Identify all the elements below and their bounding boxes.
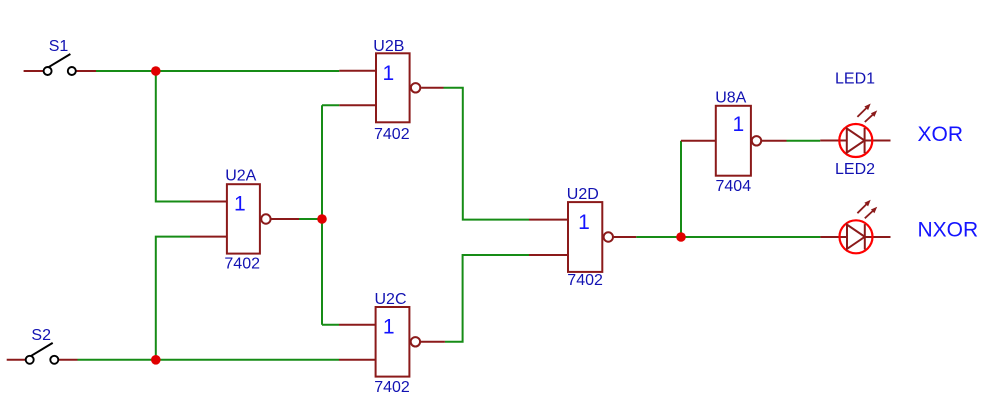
wire vertical bus x=322 from U2B input B to U2C input A <box>321 105 323 325</box>
junction dot at U2A output net <box>317 214 327 224</box>
wire junction up to U8A input <box>680 141 682 237</box>
inverter U8A body <box>716 106 761 176</box>
svg-text:7402: 7402 <box>567 272 603 289</box>
pin stub U2D input B <box>529 254 568 256</box>
pin stub U2D input A <box>529 219 568 221</box>
NOR gate U2C body <box>376 307 420 377</box>
svg-text:7402: 7402 <box>224 256 260 273</box>
NOR gate U2D body <box>568 202 613 272</box>
pin stub U2C input A <box>339 324 376 326</box>
svg-text:LED1: LED1 <box>835 71 875 88</box>
svg-text:S2: S2 <box>31 327 51 344</box>
junction dot at S2 net <box>151 355 161 365</box>
svg-text:U2B: U2B <box>373 38 404 55</box>
LED LED2 <box>820 200 890 254</box>
junction dot at S1 net <box>151 66 161 76</box>
NOR gate U2B body <box>376 53 420 122</box>
wire S2 output to U2C input B (net at y=359.8) <box>78 359 340 361</box>
svg-text:1: 1 <box>383 316 395 339</box>
svg-text:LED2: LED2 <box>835 161 875 178</box>
pin stub U8A output <box>762 140 787 142</box>
pin stub U2C input B <box>339 359 376 361</box>
svg-text:S1: S1 <box>49 38 69 55</box>
switch S1 <box>24 54 96 75</box>
pin stub U2B input B <box>339 104 376 106</box>
pin stub U2B input A <box>339 70 376 72</box>
wire bus to U2C input A <box>322 324 339 326</box>
junction dot at U2D output net <box>676 232 686 242</box>
pin stub U2A input B <box>190 236 227 238</box>
svg-text:1: 1 <box>578 211 590 234</box>
svg-text:NXOR: NXOR <box>918 218 979 241</box>
svg-text:7402: 7402 <box>374 126 410 143</box>
wire U8A output to LED1 <box>787 140 821 142</box>
LED LED1 <box>820 104 890 158</box>
wire junction S2 up to U2A input B <box>156 237 190 360</box>
svg-text:7404: 7404 <box>716 178 752 195</box>
svg-text:U8A: U8A <box>715 90 746 107</box>
wire bus to U2B input B <box>322 104 339 106</box>
wire U2C output to U2D input B <box>445 255 529 342</box>
wire U2A output to vertical bus x=322 <box>299 218 322 220</box>
NOR gate U2A body <box>227 184 271 253</box>
svg-text:U2C: U2C <box>375 291 407 308</box>
switch S2 <box>7 343 78 364</box>
wire U2B output to U2D input A <box>444 88 530 220</box>
pin stub U8A input <box>681 140 716 142</box>
svg-text:1: 1 <box>234 193 246 216</box>
pin stub U2A output <box>271 218 299 220</box>
wire junction to LED2 <box>681 236 820 238</box>
pin stub U2B output <box>421 87 443 89</box>
pin stub U2A input A <box>190 201 227 203</box>
svg-text:7402: 7402 <box>374 379 410 396</box>
wire U2D output to NXOR junction <box>636 236 681 238</box>
wire junction S1 down to U2A input A <box>156 71 190 202</box>
svg-text:U2D: U2D <box>567 186 599 203</box>
svg-text:XOR: XOR <box>918 123 964 146</box>
svg-text:1: 1 <box>733 113 745 136</box>
pin stub U2C output <box>421 341 445 343</box>
svg-text:U2A: U2A <box>225 168 256 185</box>
svg-text:1: 1 <box>383 62 395 85</box>
wire S1 output to U2B input A (net at y=71) <box>96 70 339 72</box>
pin stub U2D output <box>614 236 636 238</box>
